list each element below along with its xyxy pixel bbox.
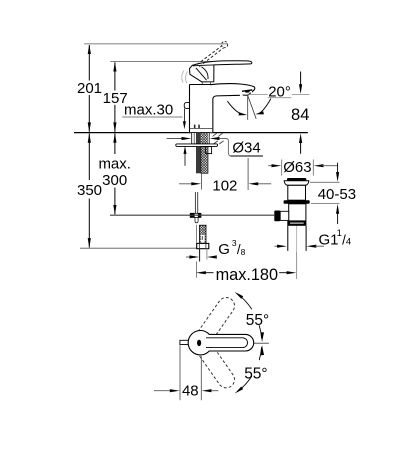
svg-text:Ø34: Ø34	[232, 140, 260, 157]
svg-text:350: 350	[77, 182, 102, 199]
rod knob (black)	[274, 211, 280, 222]
dim 350 vertical line	[88, 133, 90, 180]
svg-text:48: 48	[182, 383, 199, 400]
raised lever tip dashed circle	[222, 42, 228, 48]
svg-text:55°: 55°	[246, 312, 269, 329]
dim Ø63 arrows	[268, 165, 273, 167]
raised lever phantom (dashed)	[197, 46, 222, 65]
faucet body+spout white fill	[190, 84, 255, 132]
svg-text:max.30: max.30	[124, 102, 173, 119]
dim max.180 arrows	[196, 271, 206, 274]
ext line top of lever	[110, 61, 214, 63]
aerator at spout tip	[242, 90, 252, 91]
G3/8 threaded stud	[200, 225, 207, 243]
G3/8 hex nut	[197, 243, 209, 248]
dim 84 lower arrow	[300, 141, 302, 154]
waste centerline	[296, 181, 298, 279]
G3/8 pipe below nut	[199, 249, 201, 262]
dim 201 vertical line	[88, 45, 90, 81]
102 ext line left (shank centerline)	[201, 174, 203, 190]
faucet body left edge	[189, 85, 191, 133]
waste upper body	[288, 185, 306, 200]
svg-text:201: 201	[77, 80, 102, 97]
dim 102 arrows	[179, 183, 192, 185]
20deg left arc w arrow	[227, 101, 243, 115]
svg-text:max.180: max.180	[216, 266, 278, 284]
faucet base seam	[190, 127, 213, 129]
dim G3/8 arrows	[186, 256, 191, 258]
55deg upper arc seg1	[237, 294, 252, 310]
threaded shank below washer	[196, 147, 201, 174]
faucet body right edge	[213, 95, 240, 132]
dim 40-53 arrows	[337, 163, 339, 174]
waste plug lid	[287, 178, 307, 181]
waste flange	[284, 181, 309, 186]
svg-text:Ø63: Ø63	[283, 159, 311, 176]
deck section hatch marks	[213, 133, 217, 136]
svg-text:55°: 55°	[244, 365, 267, 382]
20deg slanted line	[248, 96, 256, 119]
countertop deck line	[74, 132, 308, 134]
max.180 left ext line	[195, 225, 197, 243]
rod sleeve	[280, 211, 289, 220]
55deg upper arc seg2	[259, 325, 261, 338]
supply tube double line	[194, 192, 196, 213]
neck lines	[201, 82, 203, 84]
40-53 ext lines	[310, 181, 340, 183]
handle inner edge lines	[196, 68, 207, 80]
84 ref line at spout outlet	[249, 93, 268, 95]
dim 48 arrows	[154, 390, 173, 392]
top view handle outline	[188, 331, 254, 355]
top view spout protrusion	[180, 340, 193, 344]
20deg underline	[268, 97, 291, 99]
phantom lever rotated down 55deg (dashed)	[195, 340, 238, 391]
max.30 up arrow to washer	[184, 153, 186, 166]
dim 48 ext lines	[179, 345, 181, 400]
lever handle outline	[190, 61, 252, 82]
svg-text:40-53: 40-53	[318, 186, 356, 203]
20deg right arc w arrow	[259, 99, 271, 114]
shank block below deck	[192, 133, 210, 144]
dim 157 vertical line	[114, 62, 116, 90]
faucet body top seam	[190, 84, 214, 86]
dim 84 upper arrow	[300, 72, 302, 87]
55deg lower arc seg2	[237, 376, 252, 392]
waste lower body	[289, 204, 306, 221]
svg-text:102: 102	[212, 177, 237, 194]
washer plate	[176, 144, 218, 147]
waste bottom flange	[287, 221, 306, 226]
pop-up waste pull rod	[110, 214, 274, 216]
mounting nut	[206, 147, 212, 154]
mid reference tick	[254, 342, 269, 344]
tube end cap	[195, 218, 198, 223]
102 ext line right (spout centerline)	[247, 158, 249, 190]
svg-text:max.: max.	[98, 155, 131, 172]
svg-text:300: 300	[102, 172, 127, 189]
Ø63 ext lines	[281, 160, 283, 176]
55deg lower arc seg1	[259, 347, 261, 360]
dim max.300 vertical line	[114, 133, 116, 154]
handle phantom marks (light)	[182, 71, 184, 83]
max.30 leader underline	[122, 116, 182, 118]
20deg vertical line	[247, 96, 249, 120]
phantom lever rotated up 55deg (dashed)	[195, 294, 238, 345]
tube compression fitting	[190, 213, 201, 217]
handle dot marker	[197, 340, 201, 346]
max.30 down arrow to deck	[183, 109, 185, 122]
top view lever inner contour	[206, 338, 248, 348]
ext line top of raised lever	[84, 43, 227, 45]
lever blade underside line	[193, 65, 214, 66]
waste seal ring	[284, 200, 310, 204]
max.30 tab on faucet body	[184, 103, 189, 109]
max.180 right ext line	[296, 252, 298, 279]
Ø34 underline	[230, 155, 263, 157]
dim Ø34 arrows	[167, 138, 183, 140]
dim G1 1/4 arrows	[275, 245, 279, 247]
waste tailpipe	[287, 226, 289, 251]
ext line at G3/8 nut top	[80, 247, 197, 249]
svg-text:84: 84	[291, 106, 309, 124]
spout top edge	[210, 84, 255, 93]
